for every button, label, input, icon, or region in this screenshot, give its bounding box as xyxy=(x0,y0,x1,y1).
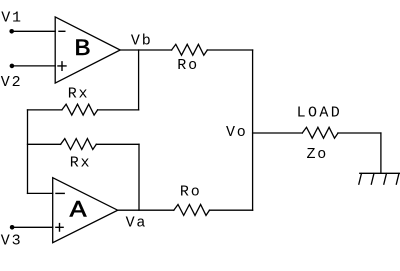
wire V2 to op-amp B non-inverting input xyxy=(12,65,55,67)
svg-text:V3: V3 xyxy=(1,233,23,250)
resistor Rx upper body xyxy=(62,104,98,115)
resistor Zo LOAD body xyxy=(302,127,338,138)
svg-text:Ro: Ro xyxy=(177,57,199,74)
node V3 terminal xyxy=(10,225,15,230)
svg-text:B: B xyxy=(74,36,90,62)
op-amp B minus pin mark xyxy=(59,30,65,32)
ground xyxy=(359,173,400,184)
wire V1 to op-amp B inverting input xyxy=(12,30,56,32)
svg-text:V1: V1 xyxy=(1,10,23,27)
op-amp A plus pin mark xyxy=(56,224,63,231)
svg-text:Va: Va xyxy=(126,215,148,232)
svg-text:V2: V2 xyxy=(1,74,23,91)
wire resistor Ro upper to right rail xyxy=(207,49,252,51)
wire left rail to op-amp A inverting input xyxy=(28,192,53,194)
node V1 terminal xyxy=(9,29,14,34)
wire left rail to resistor Rx lower xyxy=(28,143,61,145)
op-amp B body xyxy=(55,17,120,83)
svg-text:LOAD: LOAD xyxy=(297,104,343,121)
wire left feedback rail xyxy=(27,110,29,193)
wire Va junction down to op-amp A output xyxy=(138,144,140,210)
wire op-amp A output to resistor Ro lower xyxy=(118,209,174,211)
node V2 terminal xyxy=(10,64,15,69)
svg-text:Vb: Vb xyxy=(131,32,153,49)
svg-text:Rx: Rx xyxy=(68,86,90,103)
op-amp A body xyxy=(53,178,118,243)
wire op-amp B output to resistor Ro upper xyxy=(120,49,171,51)
svg-text:A: A xyxy=(70,198,87,224)
svg-text:Vo: Vo xyxy=(226,124,248,141)
svg-text:Rx: Rx xyxy=(70,155,92,172)
wire right rail Vb-Ro to Va-Ro xyxy=(252,50,254,210)
op-amp A minus pin mark xyxy=(56,192,64,194)
svg-text:Zo: Zo xyxy=(307,146,329,163)
wire down to ground xyxy=(380,133,382,173)
wire node Vo to load Zo xyxy=(253,132,303,134)
resistor Ro lower body xyxy=(174,205,210,216)
svg-text:Ro: Ro xyxy=(180,184,202,201)
resistor Rx lower body xyxy=(61,139,97,150)
wire V3 to op-amp A non-inverting input xyxy=(12,226,53,228)
node Vb junction wire down to resistor Rx upper xyxy=(138,50,140,110)
wire left rail to resistor Rx upper xyxy=(28,109,62,111)
op-amp B plus pin mark xyxy=(58,62,66,71)
wire resistor Rx upper to Vb junction xyxy=(98,109,139,111)
wire resistor Rx lower to Va junction xyxy=(96,143,139,145)
wire load Zo to ground xyxy=(338,132,381,134)
wire resistor Ro lower to right rail xyxy=(210,209,253,211)
resistor Ro upper body xyxy=(172,44,208,55)
